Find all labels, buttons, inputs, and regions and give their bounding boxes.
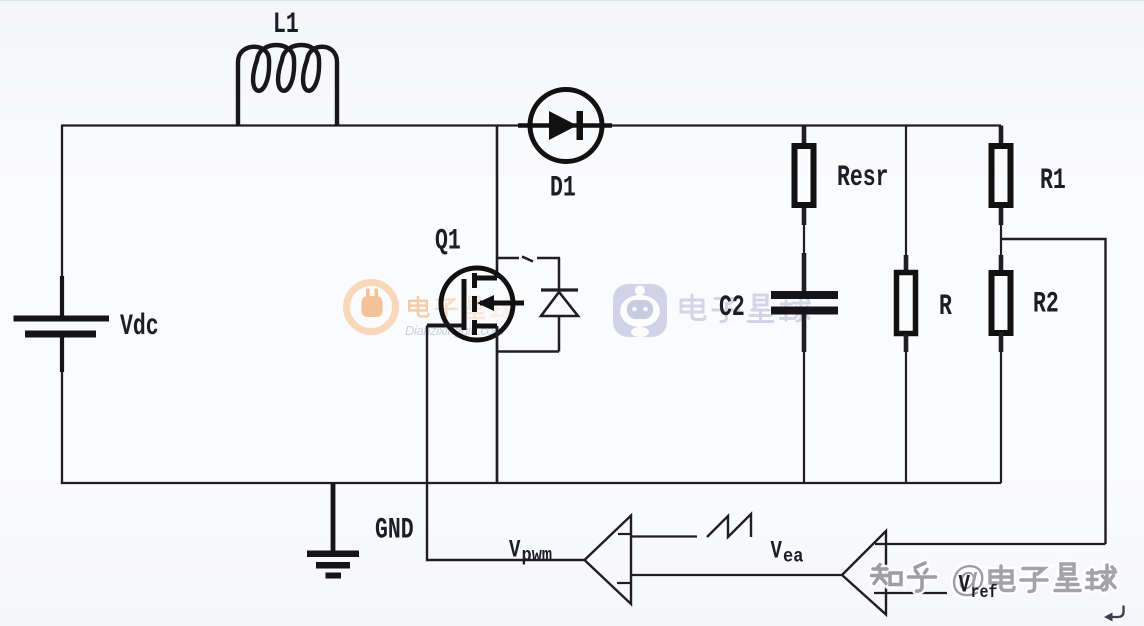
svg-text:GND: GND bbox=[375, 512, 414, 546]
wire gate to comparator bbox=[427, 326, 584, 561]
wire source vertical bbox=[496, 326, 499, 483]
resistor R1 bbox=[992, 146, 1011, 205]
wire sawtooth input bbox=[631, 535, 697, 537]
wire Vea output to comparator bbox=[631, 574, 842, 576]
wire R top bbox=[905, 126, 907, 257]
wire R1 to R2 junction bbox=[999, 208, 1004, 225]
top rail wire bbox=[62, 124, 1001, 126]
svg-text:Q1: Q1 bbox=[435, 223, 461, 257]
svg-text:ref: ref bbox=[971, 583, 998, 602]
svg-text:ea: ea bbox=[783, 547, 803, 568]
transistor Q1 (MOSFET) bbox=[441, 268, 524, 340]
watermark zhihu text bbox=[872, 563, 1116, 592]
ground bbox=[307, 483, 359, 579]
inductor L1 bbox=[238, 45, 337, 126]
wire body-diode box bottom bbox=[497, 350, 559, 353]
top edge line bbox=[0, 0, 1144, 2]
body diode of Q1 bbox=[541, 290, 578, 352]
svg-text:Resr: Resr bbox=[837, 160, 889, 194]
resistor R2 bbox=[992, 273, 1011, 333]
watermark orange logo ring bbox=[347, 283, 396, 332]
battery Vdc bbox=[14, 276, 110, 372]
svg-text:Vdc: Vdc bbox=[120, 309, 159, 343]
svg-text:V: V bbox=[509, 536, 521, 564]
wire R1 top stub bbox=[999, 126, 1004, 144]
svg-text:D1: D1 bbox=[550, 170, 576, 204]
wire Resr to C2 bbox=[802, 208, 807, 225]
capacitor C2 bbox=[771, 291, 838, 315]
wire body-diode box right bbox=[558, 258, 561, 290]
resistor R bbox=[897, 273, 916, 334]
wire R bottom bbox=[904, 334, 909, 352]
svg-text:R1: R1 bbox=[1040, 163, 1066, 197]
wire drain vertical bbox=[496, 126, 499, 279]
op-amp Vpwm comparator bbox=[585, 516, 632, 605]
wire Vea inverting input from divider bbox=[875, 543, 1106, 545]
wire Vref input bbox=[874, 592, 947, 594]
wire R2 bottom bbox=[999, 332, 1004, 352]
svg-text:V: V bbox=[959, 571, 971, 599]
wire body-diode box top (dashed) bbox=[497, 257, 560, 260]
bottom rail wire bbox=[61, 482, 1001, 484]
svg-text:C2: C2 bbox=[719, 290, 745, 324]
svg-text:R: R bbox=[939, 289, 952, 323]
pin plus tick bbox=[617, 582, 631, 584]
watermark purple text bbox=[681, 295, 810, 322]
diode D1 bbox=[518, 90, 612, 162]
return mark bbox=[1108, 606, 1124, 618]
wire C2 bottom bbox=[802, 315, 807, 353]
watermark robot icon bbox=[613, 284, 667, 337]
left rail wire lower bbox=[61, 372, 63, 484]
wire Resr top stub bbox=[802, 126, 807, 144]
svg-text:pwm: pwm bbox=[522, 546, 553, 567]
left rail wire upper bbox=[61, 125, 63, 277]
svg-text:V: V bbox=[771, 537, 783, 565]
wire feedback tap bbox=[1001, 239, 1106, 544]
svg-text:R2: R2 bbox=[1033, 286, 1059, 320]
resistor Resr bbox=[795, 146, 814, 205]
pin minus tick bbox=[618, 533, 631, 535]
op-amp Vea error amplifier bbox=[842, 531, 886, 615]
sawtooth oscillator symbol bbox=[707, 514, 751, 537]
svg-text:L1: L1 bbox=[273, 7, 299, 41]
watermark orange text bbox=[409, 297, 514, 318]
wire gate lead bbox=[427, 324, 463, 328]
